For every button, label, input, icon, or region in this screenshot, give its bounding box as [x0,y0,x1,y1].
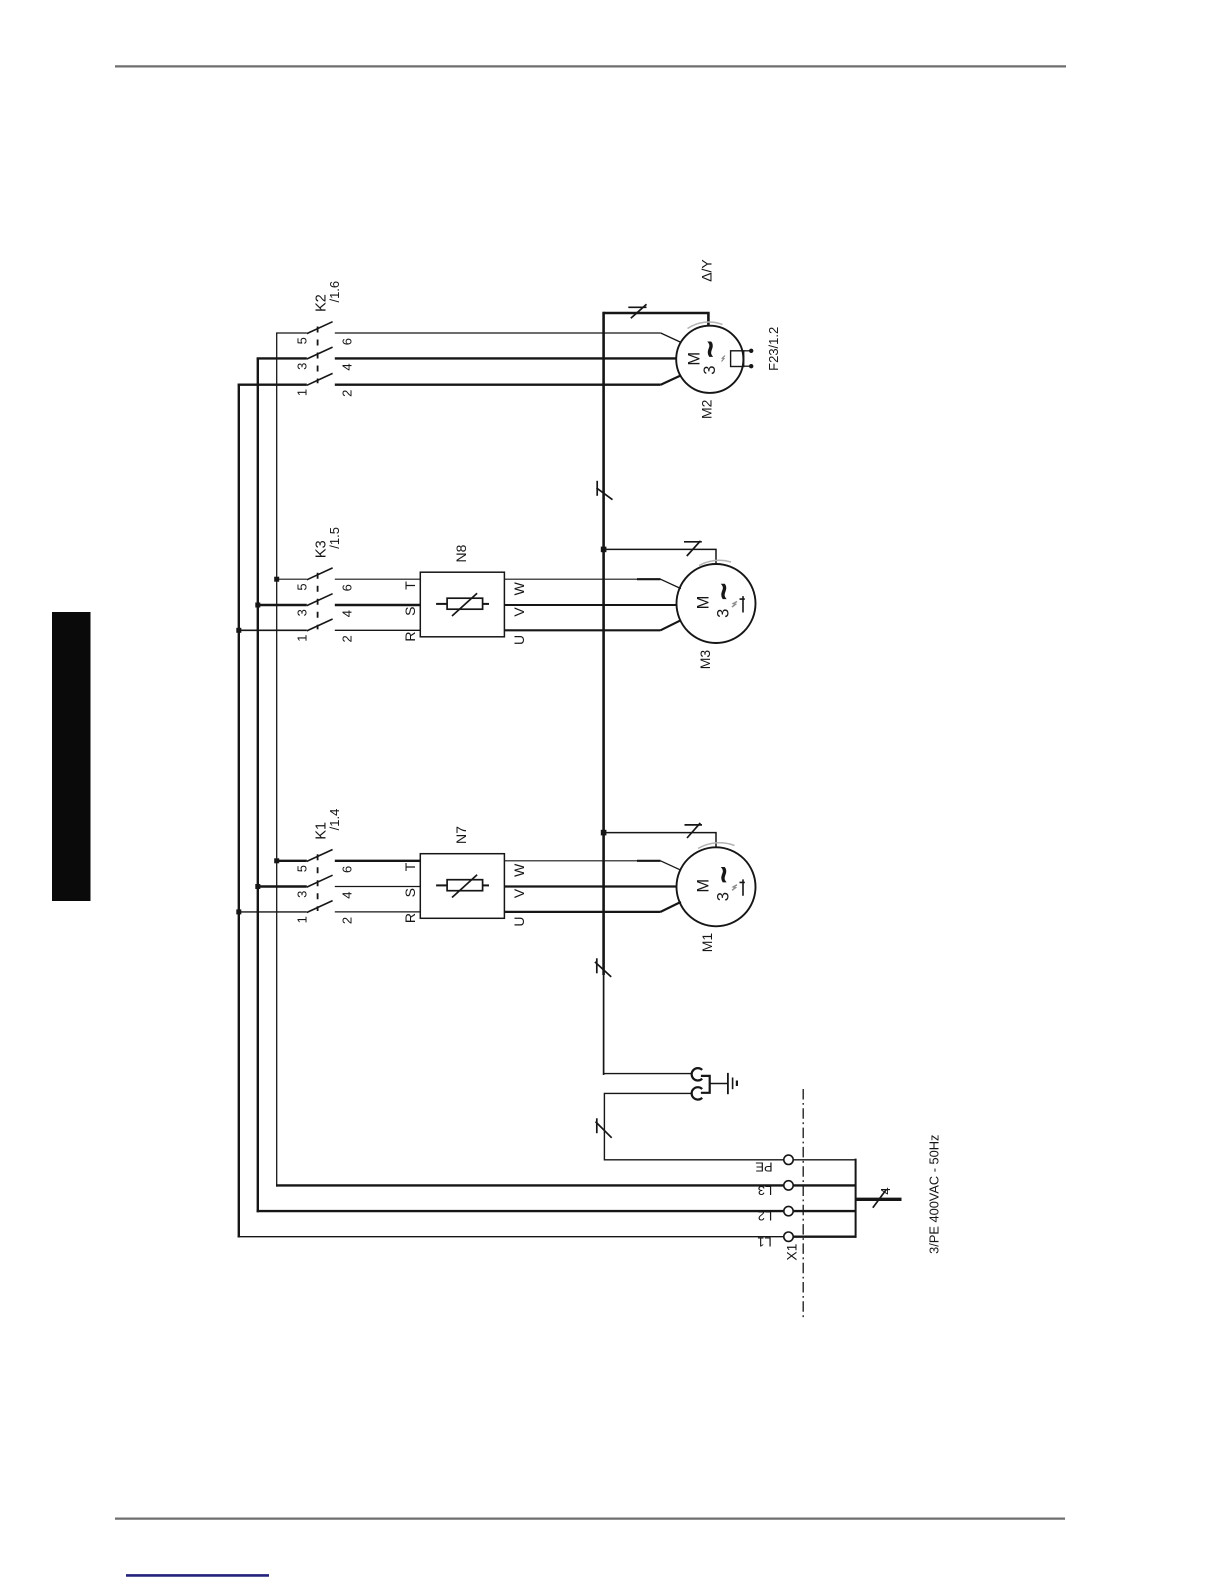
bus slash 1 [597,488,613,500]
N7 varistor body [447,880,483,891]
svg-text:4: 4 [340,363,355,370]
K1 contact 3 stub [258,885,307,887]
svg-text:6: 6 [340,338,355,345]
M3 stub bottom diagonal [661,620,681,630]
wire L2 feed vertical [257,358,259,1212]
svg-text:/1.6: /1.6 [327,281,342,303]
M1 branch slash [687,823,700,838]
svg-text:V: V [511,607,527,617]
terminal PE circle [784,1155,793,1164]
svg-text:M1: M1 [699,933,715,953]
motor M2 circle [676,326,743,393]
F23 lead bottom [744,365,751,367]
wire L1 bottom horizontal [238,1236,784,1238]
N7 output V wire [504,885,676,887]
N7 output W wire [504,860,660,862]
K1 wire 6 to N7 [335,860,421,862]
M1 PE branch [604,833,716,848]
svg-text:3: 3 [294,609,309,616]
K1 contact 1 stub [239,911,307,913]
M3 thermal zigzag [732,602,737,608]
M1 gray arc [698,843,735,849]
svg-text:5: 5 [294,865,309,872]
svg-text:T: T [402,581,418,590]
supply slash [873,1190,887,1208]
svg-text:1: 1 [294,916,309,923]
K1 contact 5 stub [277,860,307,862]
K3 contact 5 stub [277,578,307,580]
N8 output U wire [504,629,660,631]
K3 blade 3-4 [307,594,333,606]
K2 wire 4 [335,357,676,359]
M3 PE branch [604,549,716,564]
K1 wire 4 to N7 [335,886,421,888]
K3 contact 1 stub [239,629,307,631]
terminal L1 circle [784,1232,793,1241]
PE connector female bottom [692,1087,703,1099]
svg-text:5: 5 [294,337,309,344]
wire L2 bottom horizontal [257,1210,784,1212]
svg-text:N7: N7 [453,826,469,844]
PE top wire to connector [604,1073,692,1075]
svg-text:3: 3 [294,363,309,370]
svg-text:M2: M2 [699,399,715,419]
svg-text:S: S [402,607,418,616]
svg-text:4: 4 [878,1187,893,1194]
svg-text:L1: L1 [757,1234,771,1249]
ground bar 1 [727,1073,729,1094]
K3 wire 4 to N8 [335,604,421,606]
N7 output U wire [504,911,660,913]
bus vertical upper [602,312,605,975]
svg-text:L2: L2 [758,1209,772,1224]
PE connector female top [692,1068,703,1080]
svg-text:PE: PE [755,1159,773,1174]
header rule [115,65,1066,67]
K3 junction 5 [274,577,279,582]
K3 junction 3 [255,603,260,608]
ground stem [710,1083,728,1085]
motor M1 circle [677,847,756,926]
PE lower slash [596,1122,612,1138]
svg-text:2: 2 [340,635,355,642]
svg-text:W: W [511,581,527,595]
wire L3 bottom horizontal [276,1184,784,1186]
svg-text:U: U [511,916,527,926]
M1 branch slash tick [685,824,703,826]
svg-text:2: 2 [340,390,355,397]
svg-text:S: S [402,888,418,897]
M3 branch slash [687,541,701,556]
M3 thermal arrow [740,596,745,612]
PE connector male bracket [701,1076,710,1093]
svg-text:3: 3 [294,891,309,898]
K2 blade 3-4 [307,347,333,359]
K2 contact 3 left stub [257,357,307,359]
M3 branch slash tick [684,541,702,543]
svg-text:3: 3 [715,609,733,618]
wire L3 feed vertical [276,333,278,1187]
K2 contact 5 left stub [276,332,307,334]
ground bar 3 [736,1081,738,1087]
svg-text:~: ~ [708,867,739,883]
footer rule [115,1517,1065,1519]
F23 dot top [749,349,753,353]
svg-text:6: 6 [340,584,355,591]
svg-text:/1.4: /1.4 [327,809,342,831]
M2 stub top diagonal [661,333,682,343]
N8 varistor slash [452,593,477,616]
svg-text:3/PE 400VAC - 50Hz: 3/PE 400VAC - 50Hz [927,1135,942,1254]
bus slash 2 tick [596,958,598,973]
K1 junction 5 [274,858,279,863]
K1 blade 5-6 [307,850,333,862]
N8 output V wire [504,604,676,606]
L3 right wire [793,1184,855,1186]
svg-text:2: 2 [340,917,355,924]
svg-text:4: 4 [340,610,355,617]
svg-text:R: R [402,913,418,923]
K2 blade 1-2 [307,373,333,385]
K1 blade 3-4 [307,875,333,887]
wire L1 feed vertical [238,385,240,1238]
M1 thermal arrow [740,879,745,895]
svg-text:T: T [402,862,418,871]
bus junction M3 [601,547,607,553]
svg-text:/1.5: /1.5 [327,527,342,549]
M3 gray arc [699,560,731,565]
N7 box [420,854,504,919]
M2 branch slash [631,304,647,318]
K2 blade 5-6 [307,322,333,334]
K1 junction 3 [255,884,260,889]
N8 varistor lead right [483,603,489,605]
M3 stub top diagonal [661,579,681,588]
N7 output W thick seg [637,860,661,862]
K2 wire 6 [335,332,661,334]
terminal L2 circle [784,1206,793,1215]
N7 varistor slash [452,875,477,898]
K3 blade 5-6 [307,568,333,580]
svg-text:4: 4 [340,891,355,898]
bus slash 2 [595,962,611,977]
svg-text:5: 5 [294,583,309,590]
footer link underline [126,1574,269,1577]
K1 junction 1 [236,909,241,914]
N8 output W wire [504,578,660,580]
panel boundary dash-dot [802,1089,804,1321]
bus junction M1 [601,830,607,836]
K2 wire 2 [335,384,661,386]
svg-text:~: ~ [708,583,739,599]
section thumb tab [52,612,91,901]
K2 linkage dashed [317,327,319,384]
M2 branch slash tick [628,306,646,308]
svg-text:1: 1 [294,389,309,396]
bus vertical lower [603,975,605,1075]
svg-text:N8: N8 [453,544,469,562]
F23 theta mark [722,356,726,362]
N7 varistor lead left [436,884,447,886]
PE bottom wire from connector [604,1093,783,1159]
M2 stub bottom diagonal [661,375,682,384]
terminal L3 circle [784,1181,793,1190]
N8 varistor lead left [436,603,447,605]
M1 stub top diagonal [661,861,681,870]
N7 varistor lead right [483,884,489,886]
M2 gray arc [688,322,723,329]
K3 wire 6 to N8 [335,578,421,580]
N8 box [420,572,504,637]
F23 dot bottom [749,364,753,368]
svg-text:L3: L3 [758,1183,772,1198]
L1 right wire [793,1235,855,1237]
F23 sensor box [731,351,744,367]
M1 stub bottom diagonal [661,902,681,912]
svg-text:M3: M3 [697,650,713,670]
ground bar 2 [732,1078,734,1090]
svg-text:F23/1.2: F23/1.2 [766,327,781,371]
PE lower slash tick [596,1118,598,1133]
K3 wire 2 to N8 [335,629,421,631]
PE bus top corner to M2 [604,313,709,326]
svg-text:U: U [511,635,527,645]
svg-text:1: 1 [294,634,309,641]
K3 junction 1 [236,628,241,633]
supply collector bar [855,1159,857,1238]
N8 output W thick seg [637,578,661,580]
svg-text:3: 3 [701,366,719,375]
K3 blade 1-2 [307,619,333,631]
svg-text:X1: X1 [784,1243,800,1260]
N8 varistor body [447,598,483,609]
svg-text:3: 3 [715,892,733,901]
K2 contact 1 left stub [238,384,307,386]
PE right wire [793,1159,855,1161]
svg-text:Δ/Y: Δ/Y [698,259,714,282]
svg-text:~: ~ [694,341,725,357]
svg-text:W: W [511,863,527,877]
svg-text:V: V [511,888,527,898]
bus slash 1 tick [596,481,598,496]
motor M3 circle [677,564,756,643]
supply stub [856,1198,902,1201]
svg-text:R: R [402,631,418,641]
F23 lead top [744,350,751,352]
K1 wire 2 to N7 [335,911,421,913]
svg-text:6: 6 [340,866,355,873]
K1 linkage dashed [317,854,319,911]
K3 contact 3 stub [258,604,307,606]
K3 linkage dashed [317,573,319,630]
M1 thermal zigzag [732,885,737,891]
L2 right wire [793,1210,855,1212]
K1 blade 1-2 [307,901,333,913]
